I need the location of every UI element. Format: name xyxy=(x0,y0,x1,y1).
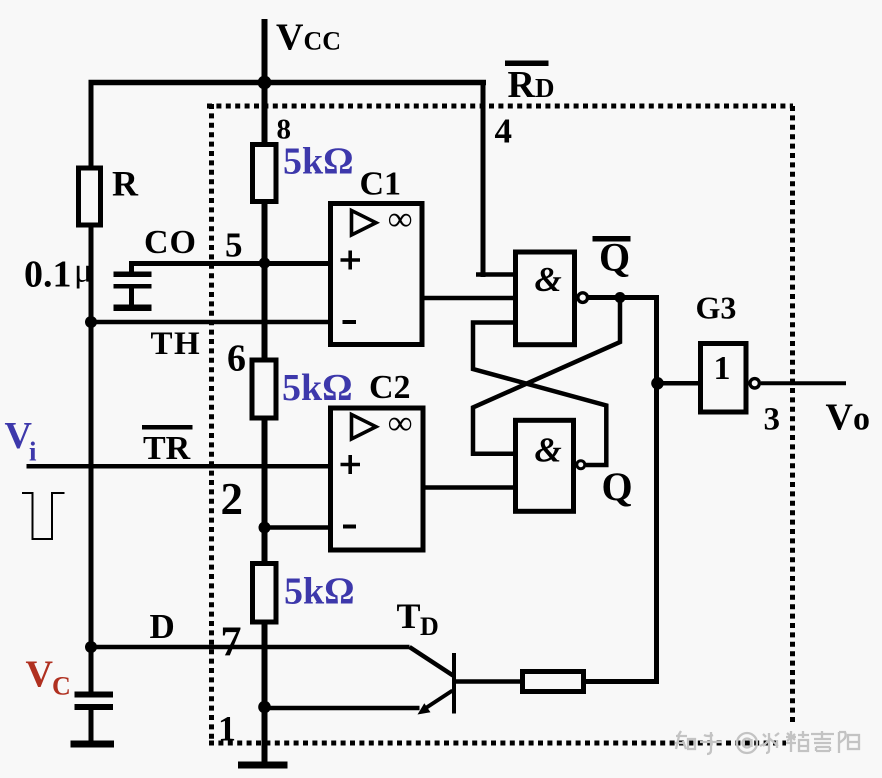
svg-text:5: 5 xyxy=(225,226,243,265)
transistor TD emitter diagonal xyxy=(422,691,453,711)
ground bar CO capacitor xyxy=(114,305,152,312)
svg-text:6: 6 xyxy=(227,338,246,380)
resistor base RB xyxy=(523,672,584,692)
svg-text:Q: Q xyxy=(602,464,633,509)
comparator C2 triangle xyxy=(352,415,377,440)
svg-text:TH: TH xyxy=(151,326,202,362)
node junction VCC dot xyxy=(258,76,272,90)
wire C2 output xyxy=(424,485,514,490)
svg-text:C1: C1 xyxy=(360,165,402,202)
resistor 5k R2 xyxy=(252,360,276,418)
svg-text:∞: ∞ xyxy=(388,405,412,442)
wire pin2 to C2 minus xyxy=(265,525,330,530)
dotted IC boundary box bottom xyxy=(209,741,786,746)
svg-text:1: 1 xyxy=(714,350,731,387)
wire main rail seg4 xyxy=(262,624,268,763)
svg-text:C: C xyxy=(52,671,71,700)
svg-text:D: D xyxy=(420,612,439,641)
wire RD reset drop xyxy=(481,80,486,277)
svg-text:C2: C2 xyxy=(369,369,411,406)
svg-text:∞: ∞ xyxy=(388,201,412,238)
capacitor CO plate 1 xyxy=(114,272,152,278)
wire CO / comparator C1 plus input xyxy=(129,261,329,266)
wire main rail seg1 xyxy=(262,82,268,144)
svg-text:D: D xyxy=(150,607,175,646)
svg-text:4: 4 xyxy=(495,112,513,151)
dotted IC boundary box top xyxy=(207,104,793,109)
node junction D dot xyxy=(85,641,97,653)
svg-text:Vo: Vo xyxy=(826,397,870,439)
ground bar bottom center xyxy=(238,762,288,769)
nand gate U1 output bubble xyxy=(578,293,588,303)
comparator C1 plus sign xyxy=(341,258,361,262)
svg-text:5kΩ: 5kΩ xyxy=(283,141,354,183)
wire emitter to rail xyxy=(265,706,420,711)
svg-text:1: 1 xyxy=(218,709,236,749)
wire Q-bar output to G3 column xyxy=(586,298,657,682)
wire TH / comparator C1 minus input xyxy=(91,320,329,325)
node junction pin2 dot xyxy=(259,522,271,534)
wire gate1 top input stub xyxy=(476,272,514,277)
wire left rail upper xyxy=(89,80,94,168)
resistor 5k R1 xyxy=(253,145,277,202)
resistor 5k R3 xyxy=(253,564,277,623)
buffer gate G3 box xyxy=(701,344,747,413)
wire main rail seg3 xyxy=(262,420,268,563)
capacitor C plate 1 xyxy=(75,692,114,698)
node junction TH dot xyxy=(85,316,97,328)
dotted IC boundary box right xyxy=(790,106,795,726)
svg-text:2: 2 xyxy=(221,474,244,524)
comparator C2 minus sign xyxy=(343,525,356,529)
label Q-bar overline xyxy=(593,236,631,242)
transistor TD emitter arrow xyxy=(418,703,431,714)
svg-text:&: & xyxy=(535,430,562,469)
node junction G3 input dot xyxy=(651,377,664,390)
capacitor CO stub bottom xyxy=(129,288,134,306)
wire main rail seg2 xyxy=(262,204,268,360)
node junction Q-bar dot xyxy=(615,292,626,303)
svg-text:i: i xyxy=(29,437,37,467)
buffer gate G3 output bubble xyxy=(750,379,759,388)
comparator C2 plus sign xyxy=(341,463,361,467)
nand gate U2 box xyxy=(516,420,574,511)
svg-text:0.1: 0.1 xyxy=(24,254,72,296)
wire left rail lower xyxy=(89,225,94,693)
ground bar VC capacitor xyxy=(71,741,115,748)
svg-text:5kΩ: 5kΩ xyxy=(284,571,355,613)
capacitor CO plate 2 xyxy=(114,284,152,289)
node junction pin5 dot xyxy=(259,257,270,268)
capacitor C plate 2 xyxy=(75,704,114,710)
label RD-bar overline xyxy=(505,61,549,67)
watermark zhihu xyxy=(675,731,859,754)
svg-text:&: & xyxy=(535,260,562,299)
transistor TD collector diagonal xyxy=(410,647,454,676)
svg-text:CO: CO xyxy=(144,224,197,261)
svg-text:μ: μ xyxy=(74,253,92,290)
wire cross-coupling Q to gate1 input xyxy=(473,323,606,466)
label TR overline xyxy=(142,425,193,430)
nand gate U1 box xyxy=(516,252,575,345)
svg-text:5kΩ: 5kΩ xyxy=(282,367,353,409)
svg-text:TR: TR xyxy=(143,430,191,467)
wire Vo output xyxy=(761,381,846,385)
svg-text:3: 3 xyxy=(764,402,781,438)
nand gate U2 output bubble xyxy=(577,461,585,469)
transistor TD base bar xyxy=(452,653,456,714)
svg-text:R: R xyxy=(112,164,139,204)
op-amp comparator C2 box xyxy=(331,408,424,550)
svg-text:7: 7 xyxy=(221,619,242,665)
wire VCC stub xyxy=(262,19,268,82)
resistor R xyxy=(79,168,101,225)
capacitor C stub xyxy=(89,710,94,741)
node junction emitter dot xyxy=(258,701,271,714)
transistor TD base wire xyxy=(455,679,520,684)
svg-text:V: V xyxy=(26,653,54,695)
wire top horizontal rail xyxy=(89,80,487,86)
wire discharge D xyxy=(91,645,410,650)
dotted IC boundary box left xyxy=(209,104,214,742)
comparator C1 minus sign xyxy=(343,320,357,324)
wire G3 input xyxy=(657,381,701,386)
svg-text:Q: Q xyxy=(599,235,630,280)
op-amp comparator C1 box xyxy=(331,204,423,345)
wire Vi trigger input xyxy=(27,464,330,469)
comparator C1 triangle xyxy=(352,211,377,236)
waveform pulse symbol xyxy=(22,493,65,539)
wire C1 output xyxy=(424,296,514,301)
svg-text:T: T xyxy=(397,596,421,636)
capacitor CO stub top xyxy=(129,263,134,273)
svg-text:G3: G3 xyxy=(696,289,737,325)
wire cross-coupling Q-bar to gate2 input xyxy=(473,298,620,454)
